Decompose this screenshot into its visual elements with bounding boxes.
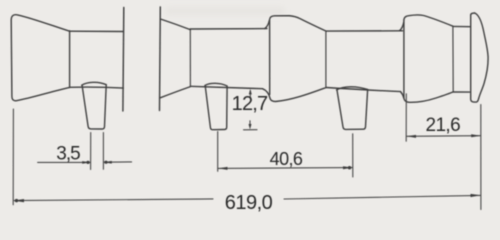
svg-text:40,6: 40,6 <box>270 149 303 169</box>
neck top <box>453 25 471 27</box>
12,7 down arrow shaft <box>249 121 251 127</box>
arrow 21,6 left <box>407 135 417 138</box>
peg P1 body <box>82 85 106 129</box>
bulge neck shoulder <box>452 26 454 91</box>
peg P1 top arc <box>82 82 107 85</box>
collar top step connector <box>265 21 270 29</box>
arrow 619 left <box>14 199 24 202</box>
dim 21,6 <box>407 135 481 138</box>
bulge face vertical <box>403 20 405 98</box>
neck bottom <box>453 91 469 93</box>
arrow 40,6 right <box>343 166 353 169</box>
ext 3,5 a <box>90 133 92 170</box>
ext 21,6 left <box>405 94 407 141</box>
flare top <box>160 19 190 30</box>
knob left end <box>11 15 69 101</box>
ext line right (21.6 + 619) <box>480 105 482 210</box>
cylinder left piece bottom <box>70 87 124 88</box>
cap dome <box>475 13 489 98</box>
ext 3,5 b <box>102 133 104 170</box>
arrow 12,7 up <box>249 89 252 95</box>
svg-text:12,7: 12,7 <box>232 93 268 115</box>
arrow 12,7 down <box>249 124 252 129</box>
cone shoulder <box>325 31 327 87</box>
dimension texts <box>56 93 460 214</box>
mid cylinder bottom <box>190 86 262 88</box>
arrow 619 right <box>471 194 481 197</box>
cap top corner <box>471 13 475 15</box>
ext line 619 left <box>12 109 14 205</box>
flare bottom <box>160 87 190 98</box>
svg-text:619,0: 619,0 <box>225 192 273 214</box>
peg P3 body <box>337 90 368 129</box>
dim 3,5 left <box>38 161 90 163</box>
cap face <box>471 15 479 102</box>
bulge top step connector <box>399 22 404 31</box>
svg-text:21,6: 21,6 <box>426 115 461 136</box>
dimension graphics <box>13 91 481 210</box>
arrow 3,5 right (points left) <box>104 161 112 164</box>
arrow 40,6 left <box>218 167 228 170</box>
arrow 3,5 left (points right) <box>82 161 90 164</box>
collar step face <box>263 89 271 99</box>
12,7 up arrow shaft <box>249 91 251 97</box>
dim 619 line left <box>14 199 213 201</box>
collar bottom and cone bottom <box>270 88 326 102</box>
dim 619 line right <box>284 195 480 199</box>
faint scan smudge <box>165 7 285 15</box>
svg-text:3,5: 3,5 <box>56 144 80 165</box>
dim 40,6 <box>218 167 352 170</box>
peg P3 top arc <box>337 87 368 90</box>
break line 1 <box>122 8 125 112</box>
12,7 bottom tick <box>244 129 258 131</box>
peg P2 top arc <box>205 83 227 86</box>
arrowheads <box>14 89 481 202</box>
bulge bottom step connector <box>401 92 404 98</box>
peg P2 body <box>205 86 227 130</box>
bulge left face <box>404 15 453 26</box>
flare shoulder <box>189 29 191 86</box>
ext 40,6 left <box>217 132 219 172</box>
bulge bottom <box>404 92 453 102</box>
break line 2 <box>159 7 162 111</box>
knob shoulder <box>69 31 71 88</box>
cylinder left piece top <box>70 30 124 32</box>
mid cylinder top <box>190 28 267 30</box>
dim 3,5 right <box>104 161 132 163</box>
ext 40,6 right <box>352 134 354 177</box>
narrow cylinder bottom <box>326 88 400 92</box>
arrow 21,6 right <box>471 134 481 137</box>
narrow cylinder top <box>326 30 402 32</box>
collar outline <box>270 16 327 95</box>
